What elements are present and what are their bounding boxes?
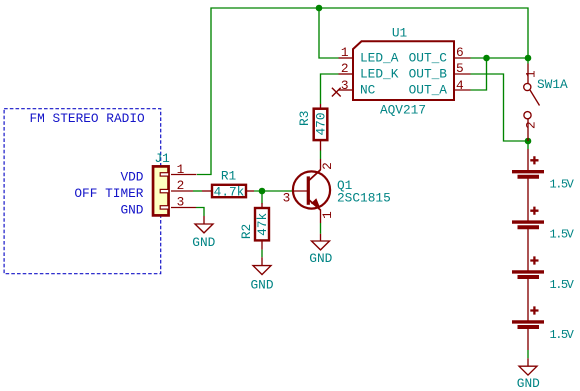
- svg-text:OUT_C: OUT_C: [409, 51, 448, 66]
- svg-text:47k: 47k: [255, 212, 270, 235]
- battery cell 1: [512, 156, 544, 177]
- U1 pin 4: [454, 89, 471, 91]
- svg-text:NC: NC: [360, 83, 376, 98]
- svg-text:GND: GND: [192, 235, 215, 250]
- ground at R2: [250, 257, 273, 292]
- ground at battery bottom: [517, 358, 540, 391]
- svg-text:GND: GND: [517, 376, 540, 391]
- no-connect X at U1 pin 3: [332, 88, 341, 97]
- svg-text:2: 2: [341, 61, 349, 76]
- resistor R2: [255, 203, 269, 250]
- svg-text:FM STEREO RADIO: FM STEREO RADIO: [30, 111, 146, 126]
- svg-text:VDD: VDD: [120, 170, 143, 185]
- opto relay U1 body: [353, 41, 454, 100]
- resistor R1: [202, 185, 254, 197]
- svg-text:R3: R3: [297, 111, 312, 126]
- svg-text:LED_K: LED_K: [360, 67, 399, 82]
- svg-text:470: 470: [314, 112, 329, 135]
- junction at R1 / R2 / Q1 base node: [259, 188, 266, 195]
- wire from top feed down to U1 pin 1: [319, 8, 339, 58]
- resistor R3: [314, 104, 328, 151]
- svg-text:1.5V: 1.5V: [550, 178, 575, 192]
- U1 pin 3: [339, 89, 354, 91]
- svg-text:3: 3: [177, 195, 185, 210]
- J1 pin 1: [171, 174, 197, 176]
- U1 pin 1: [339, 57, 354, 59]
- ground at J1 pin3: [192, 216, 215, 250]
- svg-text:1.5V: 1.5V: [550, 328, 575, 342]
- svg-text:OFF TIMER: OFF TIMER: [74, 186, 143, 201]
- svg-text:SW1A: SW1A: [537, 77, 568, 92]
- svg-text:3: 3: [283, 191, 291, 206]
- junction at feed/pin6: [525, 55, 532, 62]
- svg-text:2: 2: [524, 121, 539, 129]
- wire battery to ground: [527, 350, 529, 358]
- svg-text:3: 3: [341, 78, 349, 93]
- svg-text:1: 1: [177, 162, 185, 177]
- wire J1 pin2 to R1: [193, 190, 202, 192]
- svg-text:OUT_A: OUT_A: [409, 83, 448, 98]
- svg-text:1: 1: [341, 45, 349, 60]
- svg-text:U1: U1: [392, 26, 408, 41]
- connector J1 body: [153, 166, 169, 215]
- junction at battery + node: [525, 138, 532, 145]
- svg-text:AQV217: AQV217: [380, 102, 426, 117]
- junction on top feed wire: [316, 5, 323, 12]
- svg-text:4.7k: 4.7k: [214, 185, 245, 200]
- battery cell 4: [512, 306, 544, 327]
- wire J1 pin3 to ground: [196, 208, 204, 217]
- svg-text:R2: R2: [239, 224, 254, 239]
- svg-text:2SC1815: 2SC1815: [337, 191, 391, 206]
- wire VDD feed from J1 pin1 up and across the top to switch SW1A: [197, 8, 528, 175]
- ground at Q1 emitter: [309, 234, 332, 266]
- U1 pin 5: [454, 73, 471, 75]
- svg-text:5: 5: [456, 61, 464, 76]
- svg-text:1: 1: [320, 211, 335, 219]
- U1 pin 2: [339, 73, 354, 75]
- junction at pin4/pin6 tie: [483, 55, 490, 62]
- svg-text:4: 4: [456, 78, 464, 93]
- svg-text:OUT_B: OUT_B: [409, 67, 448, 82]
- svg-text:2: 2: [320, 162, 335, 170]
- battery cell 2: [512, 207, 544, 228]
- U1 pin 6: [454, 57, 471, 59]
- svg-text:6: 6: [456, 45, 464, 60]
- svg-text:GND: GND: [250, 277, 273, 292]
- wire junction to battery cell 1: [527, 141, 529, 149]
- wire U1 pin2 to R3: [321, 74, 339, 104]
- battery stack series wire segments: [527, 149, 529, 350]
- wire R2 to ground: [261, 250, 263, 258]
- battery cell 3: [512, 256, 544, 277]
- wire U1 pin6 to feed column: [471, 57, 529, 59]
- J1 pin 3: [171, 207, 196, 209]
- svg-text:LED_A: LED_A: [360, 51, 399, 66]
- wire R1 to Q1 base: [254, 190, 292, 192]
- wire U1 pin5 down to battery + node: [471, 74, 529, 141]
- wire R3 to Q1 collector: [320, 151, 322, 160]
- svg-text:1.5V: 1.5V: [550, 278, 575, 292]
- svg-text:GND: GND: [309, 251, 332, 266]
- svg-text:J1: J1: [155, 151, 171, 166]
- svg-text:2: 2: [177, 178, 185, 193]
- wire junction down to R2: [261, 191, 263, 204]
- wire U1 pin4 up to pin6 net: [471, 58, 487, 90]
- transistor Q1: [292, 159, 330, 223]
- dashed sheet box FM STEREO RADIO: [4, 109, 161, 274]
- svg-text:GND: GND: [120, 203, 143, 218]
- wire Q1 emitter to ground: [320, 223, 322, 234]
- svg-text:1.5V: 1.5V: [550, 228, 575, 242]
- switch SW1A: [524, 64, 540, 142]
- svg-text:R1: R1: [221, 169, 237, 184]
- J1 pin 2: [171, 190, 193, 192]
